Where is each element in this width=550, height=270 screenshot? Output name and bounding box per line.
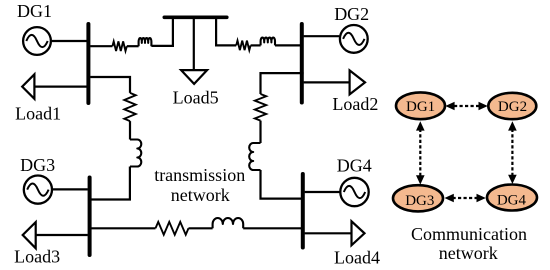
- svg-text:Load4: Load4: [334, 247, 380, 267]
- svg-text:Load2: Load2: [332, 94, 378, 114]
- svg-text:Load1: Load1: [15, 103, 61, 123]
- svg-text:Communication: Communication: [411, 224, 527, 244]
- svg-text:transmission: transmission: [154, 165, 245, 185]
- svg-text:Load3: Load3: [14, 247, 60, 267]
- svg-text:DG1: DG1: [17, 1, 52, 21]
- svg-text:DG1: DG1: [406, 99, 435, 115]
- svg-text:DG4: DG4: [497, 192, 527, 208]
- svg-text:DG3: DG3: [405, 193, 434, 209]
- svg-text:DG4: DG4: [337, 155, 372, 175]
- svg-text:DG2: DG2: [334, 4, 369, 24]
- svg-text:network: network: [439, 243, 498, 263]
- svg-text:DG2: DG2: [498, 99, 527, 115]
- svg-text:network: network: [171, 185, 230, 205]
- svg-text:DG3: DG3: [20, 155, 55, 175]
- svg-text:Load5: Load5: [173, 88, 219, 108]
